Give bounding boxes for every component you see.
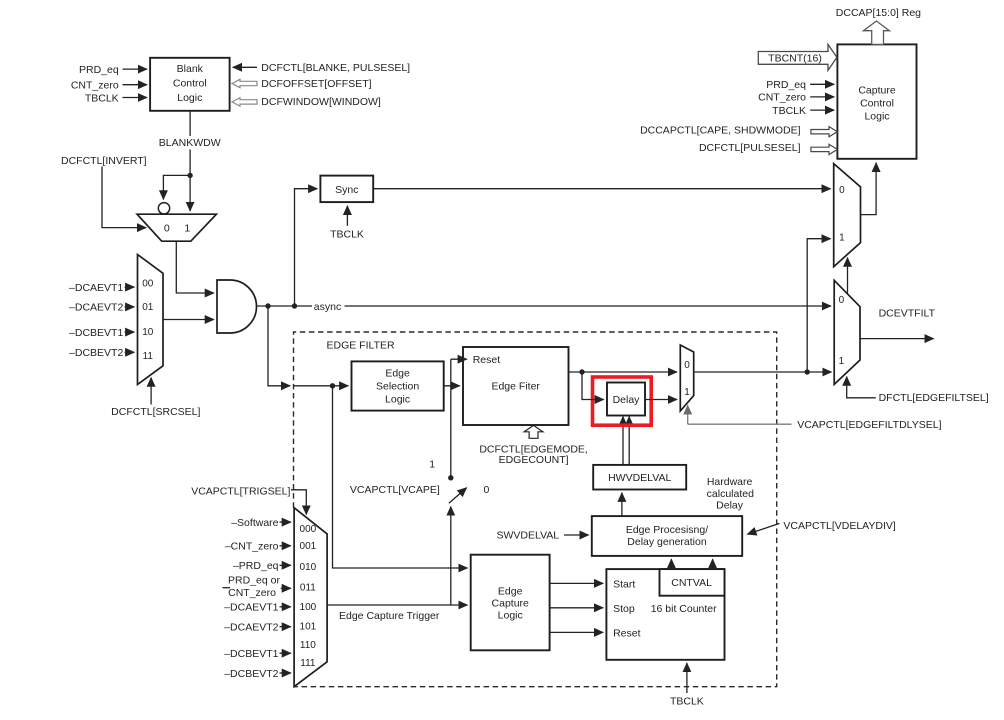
wire HWVDELVAL to Delay (double) [623,417,629,465]
EDGE FILTER dashed boundary [294,332,777,687]
svg-text:100: 100 [300,602,317,613]
select VCAPCTL[VDELAYDIV] [747,520,896,534]
svg-text:–DCBEVT2: –DCBEVT2 [69,347,123,359]
wire [281,587,291,589]
svg-text:01: 01 [142,302,154,313]
svg-text:Logic: Logic [864,111,889,123]
output DCCAP[15:0] Reg [836,7,921,44]
wire [125,351,135,353]
wire [280,626,291,628]
wire Edge Fiter output [569,369,678,399]
svg-text:Delay: Delay [613,394,641,406]
net BLANKWDW [159,111,221,211]
wire [564,534,589,536]
svg-text:Blank: Blank [177,63,204,75]
block Capture Control Logic [837,44,916,158]
svg-text:BLANKWDW: BLANKWDW [159,137,221,149]
input -DCAEVT1 (trigger) [224,602,291,614]
block Edge Processing / Delay generation [592,516,742,556]
svg-text:11: 11 [143,351,154,362]
svg-text:DCCAPCTL[CAPE, SHDWMODE]: DCCAPCTL[CAPE, SHDWMODE] [640,124,801,136]
mux capture select 0/1 (upper right) [834,164,861,267]
svg-text:Logic: Logic [177,92,202,104]
svg-text:DCFWINDOW[WINDOW]: DCFWINDOW[WINDOW] [261,96,381,108]
wire [747,523,779,534]
svg-text:0: 0 [839,185,845,196]
svg-text:110: 110 [300,640,316,651]
signal DCFCTL[INVERT] [61,155,147,227]
svg-text:CNT_zero: CNT_zero [228,587,276,599]
svg-text:1: 1 [684,387,690,398]
wire [810,109,834,111]
output DCEVTFILT [860,307,936,338]
svg-text:TBCLK: TBCLK [85,92,119,104]
input -CNT_zero [225,541,291,553]
input -DCAEVT2 [69,302,134,314]
input CNT_zero (blank) [71,80,147,92]
svg-text:DCEVTFILT: DCEVTFILT [879,307,936,319]
wire capture mux output to CCL [861,163,877,215]
svg-text:Control: Control [173,78,207,90]
input TBCLK (counter) [670,663,704,707]
svg-text:PRD_eq or: PRD_eq or [228,574,280,586]
wire [150,378,152,405]
wire [163,175,190,199]
svg-text:Start: Start [613,579,635,591]
svg-text:000: 000 [300,524,317,535]
svg-text:1: 1 [839,232,845,243]
input CNT_zero (ccl) [758,92,834,104]
svg-text:HWVDELVAL: HWVDELVAL [608,472,671,484]
svg-text:VCAPCTL[VDELAYDIV]: VCAPCTL[VDELAYDIV] [783,520,896,532]
svg-text:DCFCTL[PULSESEL]: DCFCTL[PULSESEL] [699,142,801,154]
svg-text:0: 0 [483,484,489,496]
svg-text:10: 10 [142,327,154,338]
block 16 bit Counter [606,569,724,660]
svg-text:–CNT_zero: –CNT_zero [225,541,279,553]
register HWVDELVAL [593,465,686,490]
svg-text:1: 1 [429,459,435,471]
wire capture to counter Reset [550,631,604,633]
svg-text:TBCNT(16): TBCNT(16) [768,53,822,65]
svg-text:EDGE FILTER: EDGE FILTER [327,340,395,352]
svg-text:DCFOFFSET[OFFSET]: DCFOFFSET[OFFSET] [261,78,371,90]
input -DCAEVT1 [69,282,134,294]
svg-text:–DCAEVT2: –DCAEVT2 [224,622,278,634]
wire async to Sync [295,189,318,306]
wire [123,97,148,99]
svg-text:Edge: Edge [498,585,523,597]
svg-text:011: 011 [300,583,316,594]
mux trigger select VCAPCTL[TRIGSEL] [294,508,327,687]
junction [292,303,297,308]
wire [125,286,135,288]
select arrow between muxes [847,258,849,294]
wire edge processing to HWVDELVAL [621,493,623,516]
svg-text:calculated: calculated [707,488,754,500]
wire [582,372,604,400]
input -Software [231,517,291,529]
signal DCFOFFSET[OFFSET] [232,78,372,90]
block Blank Control Logic [150,58,230,111]
svg-text:TBCLK: TBCLK [772,105,806,117]
wire branch down to Edge Capture Logic [333,386,468,568]
input PRD_eq or CNT_zero [223,574,291,599]
wire [810,96,834,98]
wire [102,167,146,228]
input -DCAEVT2 (trigger) [224,622,291,634]
register CNTVAL [660,569,725,596]
input PRD_eq (ccl) [766,79,834,91]
junction [187,173,192,178]
svg-text:Control: Control [860,98,894,110]
input PRD_eq (blank) [79,64,147,76]
svg-text:0: 0 [164,222,170,234]
svg-text:1: 1 [839,356,845,367]
junction [579,369,584,374]
block Edge Capture Logic [471,555,550,651]
svg-text:Delay generation: Delay generation [627,536,707,548]
svg-text:Edge: Edge [385,368,410,380]
junction [805,369,810,374]
wire [233,66,257,68]
svg-text:Reset: Reset [613,628,641,640]
input TBCLK (sync) [330,206,364,241]
select VCAPCTL[EDGEFILTDLYSEL] [688,405,942,431]
svg-text:16 bit Counter: 16 bit Counter [651,603,717,615]
svg-text:DCFCTL[SRCSEL]: DCFCTL[SRCSEL] [111,406,200,418]
wire [345,305,832,307]
input -DCBEVT1 (trigger) [224,648,291,660]
input DCFCTL[PULSESEL] [699,142,837,154]
mux event source DCFCTL[SRCSEL] [138,255,164,385]
svg-text:101: 101 [300,622,317,633]
signal DCFCTL[BLANKE, PULSESEL] [233,62,410,74]
label Hardware calculated Delay [707,476,754,512]
select DCFCTL[SRCSEL] [111,378,200,418]
junction [448,475,453,480]
wire [807,239,830,372]
wire srcsel mux output to AND [163,319,214,321]
input SWVDELVAL [497,530,589,542]
wire [291,490,306,515]
svg-text:async: async [314,301,341,313]
select VCAPCTL[TRIGSEL] [191,486,306,515]
wire [280,652,291,654]
svg-text:Edge Procesisng/: Edge Procesisng/ [626,524,708,536]
junction [265,303,270,308]
svg-text:Edge Fiter: Edge Fiter [491,380,540,392]
wire switch pole [450,507,452,606]
block Edge Fiter [463,347,569,425]
wire [125,306,135,308]
svg-text:–DCBEVT1: –DCBEVT1 [69,327,123,339]
svg-text:Logic: Logic [498,609,523,621]
svg-text:Sync: Sync [335,184,358,196]
svg-text:Edge Capture Trigger: Edge Capture Trigger [339,610,440,622]
svg-text:Stop: Stop [613,603,635,615]
svg-text:Reset: Reset [473,354,501,366]
svg-text:DCFCTL[BLANKE, PULSESEL]: DCFCTL[BLANKE, PULSESEL] [261,62,410,74]
wire counter to edge processing (right) [712,559,714,569]
svg-text:TBCLK: TBCLK [670,695,704,707]
net Edge Capture Trigger [327,605,467,622]
svg-text:VCAPCTL[VCAPE]: VCAPCTL[VCAPE] [350,484,440,496]
svg-text:DFCTL[EDGEFILTSEL]: DFCTL[EDGEFILTSEL] [879,392,989,404]
red highlight box [593,377,652,425]
svg-text:–DCAEVT2: –DCAEVT2 [69,302,123,314]
svg-text:SWVDELVAL: SWVDELVAL [497,530,560,542]
switch blade [449,488,467,504]
inverter bubble [158,203,169,214]
wire [280,606,291,608]
svg-text:–DCBEVT1: –DCBEVT1 [224,648,278,660]
wire [123,68,148,70]
wire [123,84,148,86]
wire [280,545,291,547]
wire Edge Selection to Edge Filter [444,385,460,387]
wire mux output to AND [176,241,214,293]
wire Sync output to capture mux [373,188,830,190]
mux output select 0/1 (lower right) [834,280,860,384]
wire AND output / async net [257,301,831,313]
wire capture to counter Stop [550,607,604,609]
svg-text:CNT_zero: CNT_zero [758,92,806,104]
svg-text:PRD_eq: PRD_eq [766,79,806,91]
svg-text:00: 00 [142,279,154,290]
input TBCLK (blank) [85,92,147,104]
svg-text:111: 111 [300,658,316,669]
svg-text:VCAPCTL[EDGEFILTDLYSEL]: VCAPCTL[EDGEFILTDLYSEL] [797,419,941,431]
svg-text:001: 001 [300,541,317,552]
svg-text:Selection: Selection [376,381,419,393]
input -DCBEVT2 (trigger) [224,668,291,680]
svg-text:Hardware: Hardware [707,476,753,488]
svg-text:–PRD_eq: –PRD_eq [233,560,279,572]
svg-text:–DCAEVT1: –DCAEVT1 [224,602,278,614]
svg-text:TBCLK: TBCLK [330,229,364,241]
svg-text:CNT_zero: CNT_zero [71,80,119,92]
wire [280,672,291,674]
wire [280,564,291,566]
input -DCBEVT2 [69,347,134,359]
mux delay bypass 0/1 [680,345,693,411]
wire [189,175,191,211]
wire [125,331,135,333]
wire async branch into edge filter [268,306,348,388]
input DCCAPCTL[CAPE, SHDWMODE] [640,124,837,136]
select arrow DCFCTL[EDGEMODE,EDGECOUNT] [479,425,588,466]
block Edge Selection Logic [352,361,444,410]
input TBCLK (ccl) [772,105,834,117]
svg-text:0: 0 [684,360,690,371]
switch VCAPCTL[VCAPE] [350,459,490,606]
svg-text:Capture: Capture [858,85,896,97]
wire capture to counter Start [550,582,604,584]
svg-text:EDGECOUNT]: EDGECOUNT] [499,454,569,466]
svg-text:0: 0 [839,295,845,306]
svg-text:DCCAP[15:0] Reg: DCCAP[15:0] Reg [836,7,921,19]
wire [451,358,467,360]
svg-text:–DCBEVT2: –DCBEVT2 [224,668,278,680]
wire [346,206,348,226]
svg-text:Capture: Capture [492,597,530,609]
wire reset feed [448,359,467,480]
svg-text:1: 1 [184,222,190,234]
svg-text:VCAPCTL[TRIGSEL]: VCAPCTL[TRIGSEL] [191,486,290,498]
wire [810,83,834,85]
svg-text:PRD_eq: PRD_eq [79,64,119,76]
svg-text:–Software: –Software [231,517,278,529]
wire [628,417,630,465]
wire filtered output [694,239,832,375]
wire [686,663,688,693]
wire [280,521,291,523]
input TBCNT(16) banner [758,44,837,70]
select DFCTL[EDGEFILTSEL] [847,377,989,405]
input -DCBEVT1 [69,327,134,339]
wire [189,111,191,136]
svg-text:DCFCTL[INVERT]: DCFCTL[INVERT] [61,155,147,167]
input -PRD_eq [233,560,291,572]
wire [189,150,191,176]
junction [330,383,335,388]
svg-text:CNTVAL: CNTVAL [671,577,712,589]
signal DCFWINDOW[WINDOW] [232,96,381,108]
svg-text:–DCAEVT1: –DCAEVT1 [69,282,123,294]
wire counter to edge processing (left) [670,559,672,569]
block Delay [607,383,645,416]
wire Delay output [645,399,677,401]
block Sync [320,176,373,203]
svg-text:Logic: Logic [385,394,410,406]
svg-text:Delay: Delay [716,500,744,512]
wire [293,385,348,387]
AND gate [217,280,257,333]
mux blank window 0/1 [137,214,216,241]
svg-text:010: 010 [300,562,317,573]
